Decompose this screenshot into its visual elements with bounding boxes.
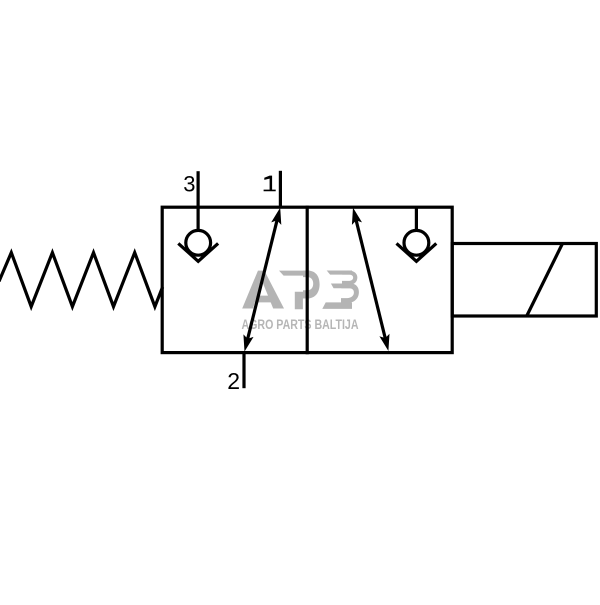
svg-text:2: 2	[227, 368, 240, 394]
svg-text:3: 3	[183, 171, 195, 196]
svg-text:AGRO PARTS BALTIJA: AGRO PARTS BALTIJA	[242, 317, 359, 332]
